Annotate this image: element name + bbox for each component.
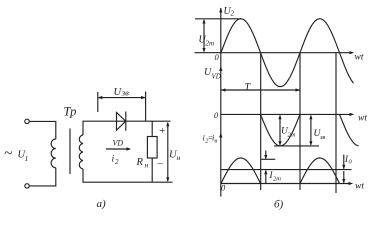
I2m dimension upper segment — [265, 151, 267, 159]
svg-text:wt: wt — [355, 53, 364, 63]
diode VD triangle — [117, 113, 126, 131]
wire secondary bottom rail — [83, 169, 173, 182]
svg-text:Тр: Тр — [64, 105, 77, 119]
svg-text:2m: 2m — [273, 176, 281, 183]
uVD trough level line — [274, 145, 319, 147]
uVD plot x-axis — [221, 113, 353, 115]
uVD second pulse start curve — [340, 114, 359, 145]
resistor RH body — [147, 137, 157, 159]
i2 current pulse 2 — [300, 158, 340, 184]
svg-text:1: 1 — [25, 154, 29, 163]
wire rail to RH — [151, 121, 153, 136]
Uzv dimension arrow line — [98, 97, 146, 99]
I0 arrowhead down at axis — [342, 179, 345, 183]
terminal bottom-left input — [25, 184, 29, 188]
U2m top arrowhead down — [202, 48, 205, 53]
I2m peak level tick line — [261, 158, 275, 160]
UH voltage arrow line — [167, 123, 169, 181]
svg-text:2m: 2m — [206, 40, 215, 48]
svg-text:0: 0 — [349, 159, 353, 166]
Uzv mid arrowhead up — [309, 115, 312, 120]
y-axis arrowhead i2 — [219, 133, 222, 138]
transformer T primary winding — [51, 139, 56, 168]
y-axis arrowhead uVD — [219, 66, 222, 71]
svg-text:а): а) — [97, 198, 107, 210]
u2 sine curve — [221, 19, 354, 87]
Uzv dimension right tick — [145, 92, 147, 122]
Uzv arrowhead left — [98, 96, 103, 99]
I2m arrowhead up — [264, 170, 267, 174]
terminal top-left input — [25, 119, 29, 123]
svg-text:~: ~ — [4, 146, 12, 162]
Uzv mid arrowhead down — [309, 141, 312, 146]
i2 plot x-axis — [221, 183, 351, 185]
svg-text:зв: зв — [121, 88, 129, 98]
svg-text:+: + — [159, 125, 166, 137]
svg-text:VD: VD — [212, 73, 221, 81]
grid line right boundary — [335, 53, 337, 193]
svg-text:wt: wt — [358, 114, 367, 124]
Uzv dimension left tick — [97, 92, 99, 112]
U2m top arrowhead up — [202, 19, 205, 24]
u2 plot x-axis — [195, 52, 353, 54]
I2m arrowhead down — [264, 155, 267, 159]
svg-text:б): б) — [274, 199, 284, 211]
svg-text:2: 2 — [231, 10, 235, 18]
I0 arrowhead down — [342, 165, 345, 169]
i2 arrowhead — [127, 147, 132, 150]
transformer core — [69, 129, 71, 175]
I2m dimension lower segment — [265, 171, 267, 184]
UH arrowhead down — [166, 177, 169, 182]
transformer secondary winding — [79, 135, 83, 169]
T arrowhead left — [221, 88, 226, 91]
UH arrowhead up — [166, 122, 169, 127]
svg-text:0: 0 — [215, 52, 220, 62]
wire top input to primary — [29, 121, 56, 139]
wire bottom input to primary — [29, 168, 56, 186]
T period dimension arrow line — [221, 89, 300, 91]
svg-text:wt: wt — [355, 182, 364, 192]
svg-text:–: – — [157, 158, 164, 170]
grid line at wt=2pi — [299, 53, 301, 190]
svg-text:в: в — [215, 139, 218, 145]
uVD negative pulse curve — [261, 114, 301, 145]
Uzv arrowhead right — [141, 96, 146, 99]
u2 peak level line — [195, 18, 241, 20]
T arrowhead right — [296, 88, 301, 91]
svg-text:н: н — [145, 161, 149, 170]
y-axis arrowhead u2 — [219, 8, 222, 13]
svg-text:2m: 2m — [288, 132, 296, 139]
U2m dimension arrow line (top plot) — [203, 20, 205, 52]
U2m dimension arrow line (middle plot) — [279, 116, 281, 145]
grid line at wt=pi — [260, 53, 262, 190]
svg-text:зв: зв — [319, 134, 326, 141]
I0 dimension upper segment — [343, 155, 345, 169]
x-axis arrowhead uVD — [350, 113, 355, 116]
svg-text:2: 2 — [115, 158, 119, 166]
svg-text:R: R — [136, 157, 144, 168]
wire secondary top to rail — [83, 121, 171, 135]
svg-text:T: T — [245, 82, 252, 93]
U2m mid arrowhead up — [278, 115, 281, 120]
diode VD cathode bar — [125, 112, 127, 131]
x-axis arrowhead i2 — [349, 182, 354, 185]
I0 average level line — [221, 169, 352, 171]
I0 dimension lower segment — [343, 171, 345, 183]
wire RH to bottom rail — [151, 158, 153, 182]
x-axis arrowhead u2 — [350, 51, 355, 54]
svg-text:0: 0 — [214, 110, 219, 120]
waveform common vertical axis — [220, 8, 222, 197]
current i2 arrow line — [106, 148, 130, 150]
i2 current pulse 1 — [221, 158, 261, 184]
svg-text:VD: VD — [113, 139, 124, 148]
svg-text:н: н — [177, 153, 181, 162]
U2m mid arrowhead down — [278, 141, 281, 146]
Uzv reverse voltage dimension arrow line — [310, 116, 312, 145]
